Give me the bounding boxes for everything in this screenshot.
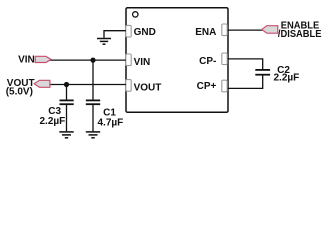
svg-text:VIN: VIN (134, 57, 151, 68)
wire GND pin to ground (104, 31, 126, 38)
pin CP- (right) (222, 53, 227, 65)
svg-text:VOUT: VOUT (134, 83, 162, 94)
svg-text:ENA: ENA (195, 27, 216, 38)
pin VIN (left) (126, 54, 131, 66)
pin CP+ (right) (222, 80, 227, 92)
wire ENA pin to ENABLE flag (228, 29, 263, 31)
svg-text:(5.0V): (5.0V) (6, 86, 33, 97)
svg-text:4.7µF: 4.7µF (98, 118, 124, 129)
wire C2 to CP+ pin (228, 75, 263, 89)
ground symbol (C1) (86, 132, 100, 138)
svg-text:/DISABLE: /DISABLE (278, 29, 322, 40)
capacitor C3 (60, 100, 74, 104)
wire VIN node down to C1 (92, 60, 94, 100)
svg-text:2.2µF: 2.2µF (274, 72, 300, 83)
capacitor C2 (255, 70, 270, 75)
wire C1 to ground (92, 104, 94, 131)
svg-text:GND: GND (134, 27, 156, 38)
net flag ENABLE/DISABLE (262, 26, 278, 34)
capacitor C1 (86, 100, 100, 104)
node junction VOUT/C3 (64, 82, 69, 87)
svg-text:CP+: CP+ (197, 81, 217, 92)
node junction VIN/C1 (90, 58, 95, 63)
svg-text:2.2µF: 2.2µF (40, 116, 66, 127)
pin-1 marker circle (133, 12, 138, 17)
pin ENA (right) (222, 24, 227, 36)
ground symbol (GND pin) (97, 39, 111, 45)
wire VIN flag to VIN pin (49, 59, 126, 61)
svg-text:CP-: CP- (199, 56, 216, 67)
wire VOUT flag to VOUT pin (49, 84, 126, 86)
pin VOUT (left) (126, 80, 131, 92)
wire CP- pin to C2 (228, 59, 263, 69)
ground symbol (C3) (59, 132, 73, 138)
net flag VOUT (34, 80, 50, 87)
IC U1 body (126, 8, 228, 113)
svg-text:VIN: VIN (18, 55, 35, 66)
wire VOUT node down to C3 (66, 85, 68, 101)
net flag VIN (35, 56, 51, 62)
pin GND (left) (126, 25, 131, 37)
wire C3 to ground (66, 104, 68, 131)
